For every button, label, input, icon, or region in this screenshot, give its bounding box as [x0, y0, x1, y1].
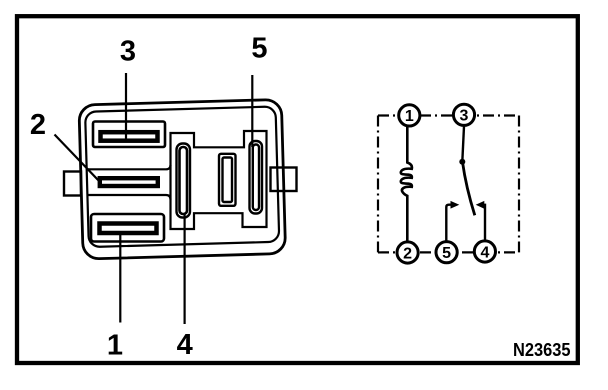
svg-text:2: 2: [403, 245, 412, 262]
contact arm of terminal 4: [483, 205, 485, 240]
svg-text:N23635: N23635: [513, 339, 571, 360]
pin 5 slot inner: [253, 145, 259, 211]
svg-text:1: 1: [405, 108, 414, 125]
middle slot outer: [219, 154, 236, 206]
schematic boundary (dash-dot box): [378, 116, 519, 253]
terminal 2 circle: [397, 242, 418, 263]
pin 4 slot inner: [180, 147, 188, 214]
svg-text:1: 1: [107, 330, 123, 362]
svg-text:2: 2: [30, 109, 46, 141]
pin 2 slot: [100, 178, 158, 186]
contact arm of terminal 5: [446, 205, 451, 242]
relay coil between terminals 1 and 2: [401, 127, 412, 243]
terminal 1 circle: [399, 105, 420, 126]
pin 2 recess top wall: [88, 165, 171, 169]
terminal 4 circle: [474, 241, 495, 262]
leader line 2: [55, 135, 100, 182]
terminal 5 circle: [436, 242, 457, 263]
pin 3 slot inner: [101, 132, 158, 141]
pin 1 slot outer: [91, 214, 164, 242]
relay body inner shell: [85, 106, 279, 247]
pin 1 slot inner: [100, 224, 157, 234]
pin 3 slot outer: [93, 122, 165, 148]
arrow contact 4: [476, 201, 485, 209]
svg-text:5: 5: [251, 33, 267, 65]
svg-text:3: 3: [460, 108, 469, 125]
pin 5 slot outer: [250, 141, 263, 214]
left mounting tab: [64, 172, 81, 196]
leader line 3: [125, 73, 127, 140]
pin 4 slot outer: [177, 144, 191, 218]
leader line 4: [184, 214, 186, 324]
relay body outer shell: [79, 99, 286, 259]
center plateau wall: [171, 131, 267, 229]
arrow contact 5: [451, 201, 460, 209]
svg-text:3: 3: [120, 36, 136, 68]
leader line 1: [119, 233, 121, 323]
wire from terminal 3 to pivot: [462, 126, 464, 162]
middle slot inner: [223, 158, 233, 203]
leader line 5: [251, 75, 253, 147]
switch blade: [463, 162, 475, 215]
svg-text:4: 4: [480, 244, 489, 261]
svg-text:5: 5: [442, 245, 451, 262]
switch pivot dot: [459, 159, 465, 165]
terminal 3 circle: [453, 104, 474, 125]
svg-text:4: 4: [177, 329, 193, 361]
pin 2 recess bottom wall: [88, 195, 171, 200]
right mounting tab: [271, 168, 297, 192]
